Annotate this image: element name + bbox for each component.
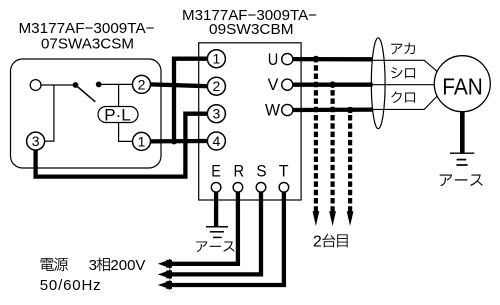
svg-text:E: E bbox=[211, 162, 221, 181]
svg-text:07SWA3CSM: 07SWA3CSM bbox=[41, 35, 134, 52]
svg-text:50/60Hz: 50/60Hz bbox=[40, 277, 102, 294]
svg-text:U: U bbox=[268, 50, 279, 69]
svg-text:2: 2 bbox=[313, 233, 322, 250]
svg-text:09SW3CBM: 09SW3CBM bbox=[209, 21, 294, 38]
svg-text:200V: 200V bbox=[110, 257, 145, 274]
svg-text:2: 2 bbox=[138, 76, 146, 92]
svg-text:3: 3 bbox=[213, 106, 221, 122]
svg-text:W: W bbox=[265, 100, 280, 119]
svg-text:3: 3 bbox=[89, 257, 97, 274]
svg-text:S: S bbox=[256, 162, 266, 181]
svg-text:3: 3 bbox=[32, 133, 40, 149]
svg-text:4: 4 bbox=[213, 133, 221, 149]
svg-text:R: R bbox=[234, 162, 245, 181]
svg-text:M3177AF−3009TA−: M3177AF−3009TA− bbox=[19, 20, 155, 37]
svg-text:T: T bbox=[279, 162, 289, 181]
svg-text:P·L: P·L bbox=[104, 106, 130, 125]
svg-text:2: 2 bbox=[213, 78, 221, 94]
svg-text:1: 1 bbox=[138, 133, 146, 149]
svg-text:FAN: FAN bbox=[442, 73, 483, 99]
svg-text:1: 1 bbox=[213, 51, 221, 67]
svg-text:V: V bbox=[268, 75, 279, 94]
